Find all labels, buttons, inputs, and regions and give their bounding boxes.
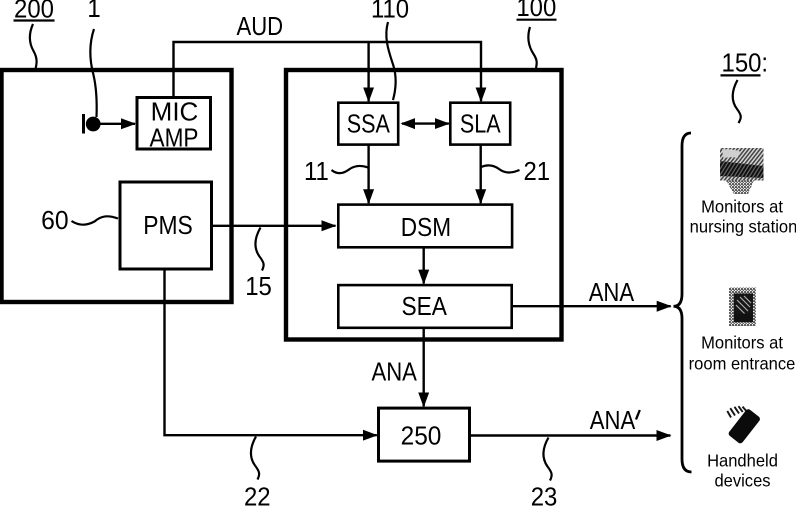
microphone 1 (bar) [82, 114, 85, 134]
box 100 (subsystem 100 outline) [286, 70, 562, 340]
svg-text:DSM: DSM [401, 214, 451, 243]
svg-text:250: 250 [401, 422, 442, 451]
label handheld devices [707, 450, 778, 491]
svg-text:SEA: SEA [401, 293, 447, 322]
microphone 1 (dot) [86, 117, 101, 132]
label monitors at nursing station [690, 196, 796, 237]
svg-text:23: 23 [531, 483, 558, 506]
squiggle for 1 (lead line to microphone) [90, 29, 96, 117]
block SLA [450, 103, 510, 145]
svg-text:ANA: ANA [589, 278, 635, 307]
svg-text:SLA: SLA [460, 110, 501, 139]
svg-text:15: 15 [245, 272, 272, 301]
brace 150 (curly bracket) [674, 133, 692, 472]
block SSA [338, 103, 398, 145]
svg-text:ANA: ANA [371, 358, 417, 387]
wire DSM to SEA [423, 247, 425, 283]
wire SLA to DSM [480, 145, 482, 204]
svg-text:Monitors at: Monitors at [701, 196, 783, 217]
svg-text:devices: devices [714, 470, 770, 491]
squiggle for 21 [481, 165, 520, 172]
svg-text:22: 22 [244, 483, 271, 506]
label monitors at room entrance [689, 332, 796, 374]
icon: handheld device [727, 406, 761, 444]
svg-text:room entrance: room entrance [689, 353, 796, 374]
icon: monitor at nursing station [720, 148, 764, 194]
squiggle for 60 [72, 216, 119, 224]
wire AUD: MIC AMP top up, across, down to SLA [174, 42, 482, 101]
label 150: [721, 48, 769, 77]
squiggle for 22 [251, 437, 259, 480]
squiggle for 11 [332, 166, 369, 173]
svg-text:Monitors at: Monitors at [701, 332, 783, 353]
squiggle for 23 [543, 438, 551, 481]
svg-text:60: 60 [41, 206, 68, 235]
svg-text:150:: 150: [722, 48, 769, 77]
svg-text:ANA: ANA [590, 406, 636, 435]
label 100 [516, 0, 556, 22]
wire mic to MIC AMP with arrow [99, 123, 135, 125]
wire SEA to brace (ANA) [512, 305, 671, 307]
block DSM [338, 205, 512, 248]
label 200 [14, 0, 55, 24]
wire AUD branch down to SSA [367, 42, 369, 101]
block SEA [338, 285, 511, 328]
svg-text:Handheld: Handheld [707, 450, 778, 471]
block MIC AMP [137, 98, 211, 150]
svg-text:SSA: SSA [347, 110, 390, 139]
squiggle for 200 [30, 24, 37, 69]
wire PMS to DSM [213, 225, 336, 227]
squiggle for 15 [255, 228, 263, 271]
block PMS [120, 182, 212, 269]
svg-text:nursing station: nursing station [690, 216, 796, 237]
wire SSA-SLA double arrow [402, 122, 449, 124]
squiggle for 100 [528, 27, 536, 68]
svg-text:AUD: AUD [236, 12, 283, 41]
wire PMS down and right to 250 [165, 270, 377, 436]
svg-text:PMS: PMS [143, 212, 193, 241]
svg-text:AMP: AMP [149, 124, 198, 153]
icon: monitor at room entrance [729, 288, 756, 327]
svg-text:1: 1 [87, 0, 100, 23]
svg-text:21: 21 [523, 157, 550, 186]
svg-text:MIC: MIC [151, 97, 199, 127]
block 250 [379, 408, 470, 461]
svg-text:11: 11 [304, 157, 329, 186]
squiggle for 150 [733, 80, 741, 123]
squiggle for 110 [386, 22, 395, 100]
box 200 (subsystem 200 outline) [2, 70, 232, 302]
wire SEA down to 250 (ANA) [423, 328, 425, 407]
wire 250 to brace (ANA') [470, 434, 670, 436]
wire SSA to DSM [367, 145, 369, 204]
svg-text:110: 110 [371, 0, 409, 24]
